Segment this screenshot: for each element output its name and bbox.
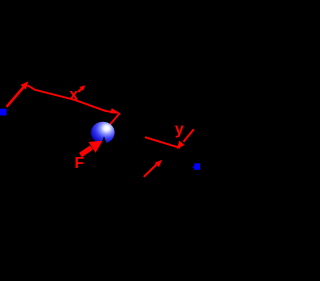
arrowhead at junction pointing down-left bbox=[174, 141, 184, 151]
arrowhead at end of long line bbox=[110, 108, 122, 116]
arrowhead at vertex bbox=[21, 79, 32, 90]
wire: right diagonal from corner down to junction bbox=[184, 129, 194, 142]
blue block left tip bbox=[193, 165, 195, 168]
blue anchor block (left wall) bbox=[0, 109, 7, 116]
wire: steep string from left block to vertex bbox=[7, 86, 25, 107]
blue anchor block (right edge) bbox=[194, 163, 200, 170]
svg-text:F: F bbox=[75, 155, 85, 172]
force F thick arrow shaft bbox=[81, 148, 92, 156]
svg-text:x: x bbox=[69, 86, 78, 103]
ball (blue sphere) bbox=[91, 122, 115, 144]
wire: long incline line from vertex to right arrowhead bbox=[28, 85, 115, 112]
svg-text:y: y bbox=[175, 121, 184, 138]
small arrow lower right pointing up-right bbox=[144, 165, 157, 177]
wire: right lower line to junction bbox=[145, 137, 180, 148]
black wedge mark on ball bbox=[101, 136, 106, 143]
wire: short link from line end down to ball bbox=[110, 114, 120, 125]
small arrow above x label bbox=[78, 89, 82, 92]
force F thick arrowhead bbox=[89, 135, 106, 153]
